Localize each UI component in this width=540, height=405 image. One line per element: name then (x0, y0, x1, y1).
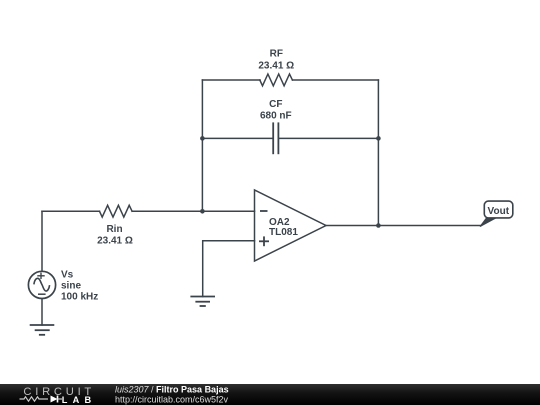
op-amp minus pin symbol (260, 210, 268, 212)
resistor Rin (100, 205, 133, 217)
wire top horizontal left of RF (202, 79, 260, 81)
op-amp plus pin symbol (259, 236, 269, 246)
capacitor CF (273, 123, 278, 153)
voltage source sine wave (34, 278, 50, 291)
wire top-left vertical (feedback left leg) (201, 80, 203, 211)
svg-text:100 kHz: 100 kHz (61, 292, 98, 303)
wire source riser vertical (41, 211, 43, 271)
wire output (326, 225, 481, 227)
svg-text:680 nF: 680 nF (260, 111, 292, 122)
svg-text:23.41 Ω: 23.41 Ω (258, 60, 294, 71)
voltage source minus mark (38, 293, 46, 295)
svg-text:TL081: TL081 (269, 227, 298, 238)
node flag Vout box (484, 201, 513, 218)
wire op-amp plus input (203, 241, 255, 297)
wire input horizontal from source to Rin (42, 210, 100, 212)
svg-text:sine: sine (61, 280, 81, 291)
svg-text:http://circuitlab.com/c6w5f2v: http://circuitlab.com/c6w5f2v (115, 395, 229, 405)
wire top horizontal right of RF (293, 79, 379, 81)
voltage source plus mark (37, 273, 44, 279)
wire CF right (278, 137, 378, 139)
logo diode (51, 396, 63, 403)
svg-text:Vs: Vs (61, 269, 74, 280)
junction node output (376, 223, 381, 228)
svg-text:23.41 Ω: 23.41 Ω (97, 235, 133, 246)
svg-text:Rin: Rin (106, 224, 122, 235)
ground under source (30, 325, 55, 335)
svg-text:luis2307 / Filtro Pasa Bajas: luis2307 / Filtro Pasa Bajas (115, 384, 229, 394)
logo resistor zigzag (20, 397, 49, 401)
ground at op-amp plus input (190, 297, 215, 307)
wire source bottom to ground (41, 298, 43, 325)
svg-text:LAB: LAB (62, 395, 96, 405)
op-amp U1 OA2 triangle (255, 190, 327, 261)
wire CF left (202, 137, 273, 139)
voltage source Vs circle (28, 271, 55, 298)
wire Rin to op-amp minus input (132, 210, 254, 212)
wire right vertical (feedback right leg) (377, 80, 379, 226)
svg-text:Vout: Vout (488, 206, 510, 217)
resistor RF (260, 74, 293, 86)
junction node feedback-left / CF (200, 136, 205, 141)
junction node inverting input (200, 209, 205, 214)
node flag Vout tail (480, 218, 496, 227)
svg-text:CF: CF (269, 99, 282, 110)
junction node feedback-right / CF (376, 136, 381, 141)
svg-text:RF: RF (270, 48, 283, 59)
